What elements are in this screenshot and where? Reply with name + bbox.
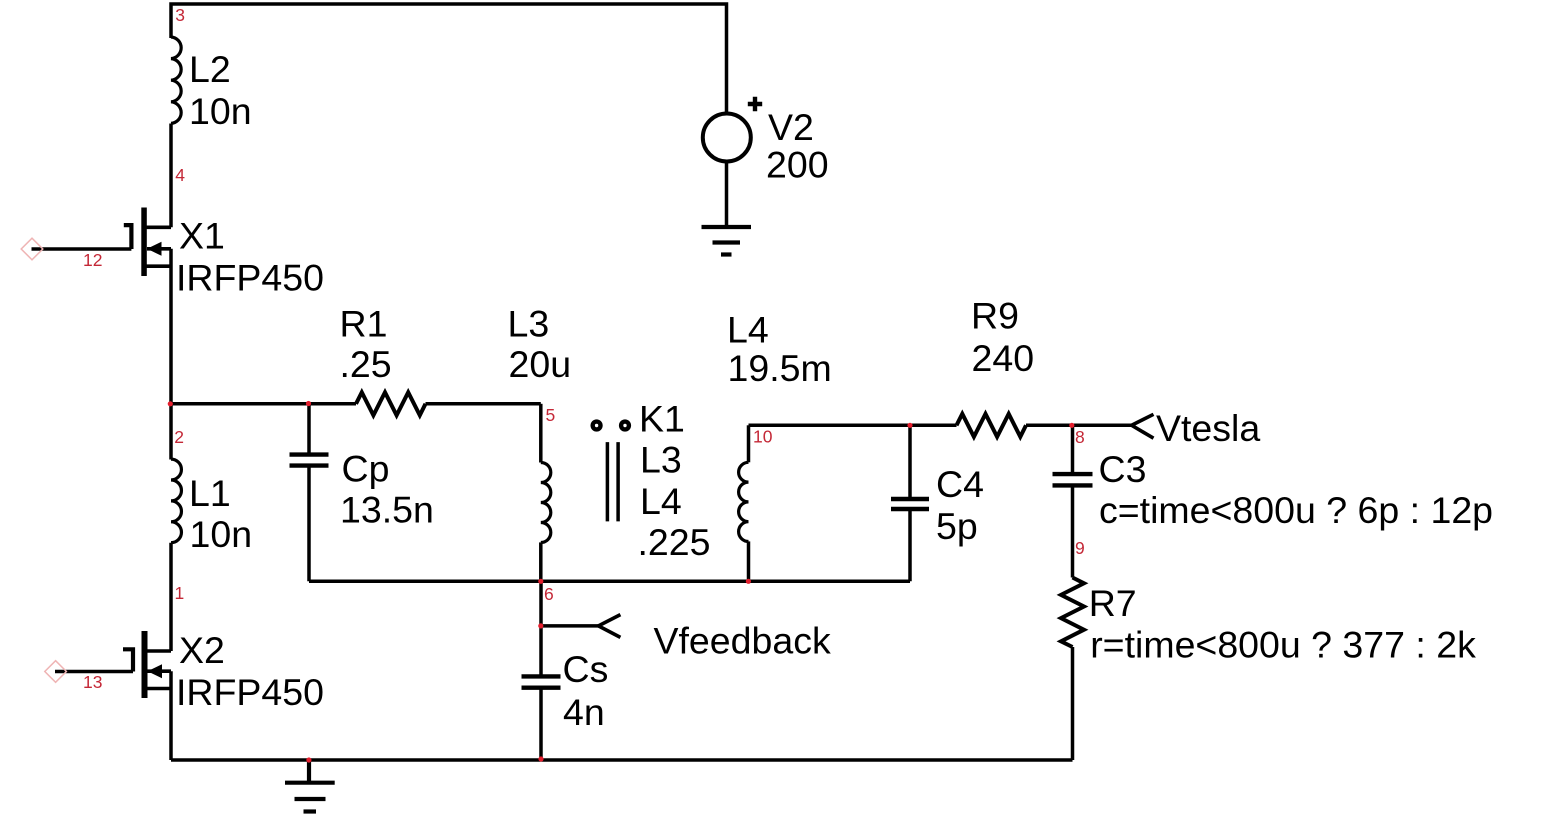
svg-text:Vtesla: Vtesla [1156, 407, 1260, 449]
junction node A [168, 401, 173, 406]
svg-text:Vfeedback: Vfeedback [654, 620, 831, 662]
capacitor C4 [891, 499, 929, 509]
wire L2 bottom to X1 drain [169, 124, 173, 228]
capacitor Cs [522, 676, 561, 687]
svg-text:1: 1 [175, 583, 185, 603]
svg-text:3: 3 [175, 5, 185, 25]
inductor L1 [171, 459, 181, 543]
junction node D [746, 579, 751, 584]
wire L3 top [539, 404, 543, 463]
svg-text:L4: L4 [727, 309, 769, 351]
resistor R1 [356, 392, 426, 415]
wire bottom bus [171, 758, 1073, 762]
svg-text:L1: L1 [189, 472, 231, 514]
svg-text:X1: X1 [179, 215, 225, 257]
svg-text:4n: 4n [563, 691, 605, 733]
wire C4 top stem [908, 425, 912, 497]
coupling K1 dots [593, 422, 601, 430]
junction node G [538, 623, 543, 628]
svg-text:9: 9 [1075, 538, 1085, 558]
coupling K1 core [607, 442, 618, 521]
wire L4 bottom stem [747, 541, 751, 581]
wire L4 left stem [747, 425, 751, 462]
junction node B [306, 401, 311, 406]
svg-text:R7: R7 [1089, 582, 1137, 624]
capacitor C3 [1053, 474, 1093, 485]
svg-text:L2: L2 [189, 48, 231, 90]
svg-text:10: 10 [753, 427, 773, 447]
junction node E [907, 423, 912, 428]
transistor X2 [55, 631, 171, 698]
wire C3 bottom to R7 [1071, 488, 1075, 578]
wire R7 bottom [1071, 647, 1075, 760]
svg-text:10n: 10n [189, 90, 252, 132]
svg-text:R1: R1 [340, 303, 388, 345]
svg-text:c=time<800u ? 6p : 12p: c=time<800u ? 6p : 12p [1099, 489, 1493, 531]
svg-text:10n: 10n [190, 513, 253, 555]
svg-text:IRFP450: IRFP450 [176, 671, 324, 713]
svg-text:Cs: Cs [563, 648, 609, 690]
wire C3 top stem [1071, 425, 1075, 472]
wire Cs bottom stem [539, 690, 543, 761]
wire L3 bottom [539, 542, 543, 581]
svg-text:IRFP450: IRFP450 [176, 257, 324, 299]
svg-text:.225: .225 [638, 521, 711, 563]
wire V2 bottom stem [725, 161, 729, 227]
svg-text:5: 5 [546, 405, 556, 425]
svg-text:13: 13 [83, 672, 102, 692]
net flag Vfeedback [598, 615, 620, 638]
wire R9 right to node8 [1026, 424, 1132, 428]
svg-text:4: 4 [175, 165, 185, 185]
svg-text:r=time<800u ? 377 : 2k: r=time<800u ? 377 : 2k [1090, 624, 1476, 666]
wire node2 bus right [426, 402, 541, 406]
junction node H [306, 757, 311, 762]
svg-text:K1: K1 [639, 398, 685, 440]
port diamond node 13 [45, 661, 67, 683]
wire Cs top stem [539, 581, 543, 674]
junction node I [538, 756, 543, 761]
svg-text:L3: L3 [508, 303, 550, 345]
junction node F [1069, 423, 1074, 428]
svg-text:Cp: Cp [342, 448, 390, 490]
svg-text:12: 12 [83, 250, 102, 270]
wire top bus [171, 4, 727, 114]
wire L1 bottom to X2 drain [169, 543, 173, 651]
svg-text:C4: C4 [936, 463, 984, 505]
transistor X1 [32, 208, 172, 277]
svg-text:200: 200 [766, 144, 829, 186]
voltage source V2 [703, 97, 762, 162]
svg-text:R9: R9 [971, 295, 1019, 337]
svg-text:C3: C3 [1099, 448, 1147, 490]
inductor L3 [541, 463, 551, 543]
wire node2 bus left [171, 402, 356, 406]
wire L4 top bus [749, 424, 957, 428]
wire C4 bottom stem [908, 511, 912, 581]
svg-text:6: 6 [544, 584, 554, 604]
wire X1 source down to L1 top [169, 249, 173, 460]
svg-text:13.5n: 13.5n [340, 489, 434, 531]
wire Cp bottom stem [307, 467, 311, 581]
resistor R7 [1061, 578, 1084, 648]
svg-text:240: 240 [972, 337, 1035, 379]
capacitor Cp [290, 455, 329, 466]
svg-text:.25: .25 [340, 343, 392, 385]
port diamond node 12 [21, 238, 43, 260]
svg-text:5p: 5p [936, 505, 978, 547]
inductor L4 [739, 462, 749, 541]
svg-text:X2: X2 [179, 629, 225, 671]
wire Cp top stem [307, 404, 311, 453]
svg-text:19.5m: 19.5m [728, 347, 832, 389]
ground V2 [702, 227, 752, 255]
net flag Vtesla [1132, 414, 1154, 438]
svg-text:L3: L3 [640, 439, 682, 481]
svg-text:L4: L4 [640, 480, 682, 522]
resistor R9 [957, 414, 1027, 437]
svg-text:V2: V2 [768, 106, 814, 148]
svg-text:20u: 20u [509, 343, 572, 385]
ground main [285, 760, 335, 812]
svg-text:8: 8 [1075, 427, 1085, 447]
wire X2 source to bottom bus [169, 671, 173, 760]
junction node C [538, 579, 543, 584]
wire node6 bus [309, 580, 910, 584]
svg-text:2: 2 [174, 427, 184, 447]
wire Vfeedback tap [541, 624, 598, 628]
inductor L2 [171, 37, 181, 123]
